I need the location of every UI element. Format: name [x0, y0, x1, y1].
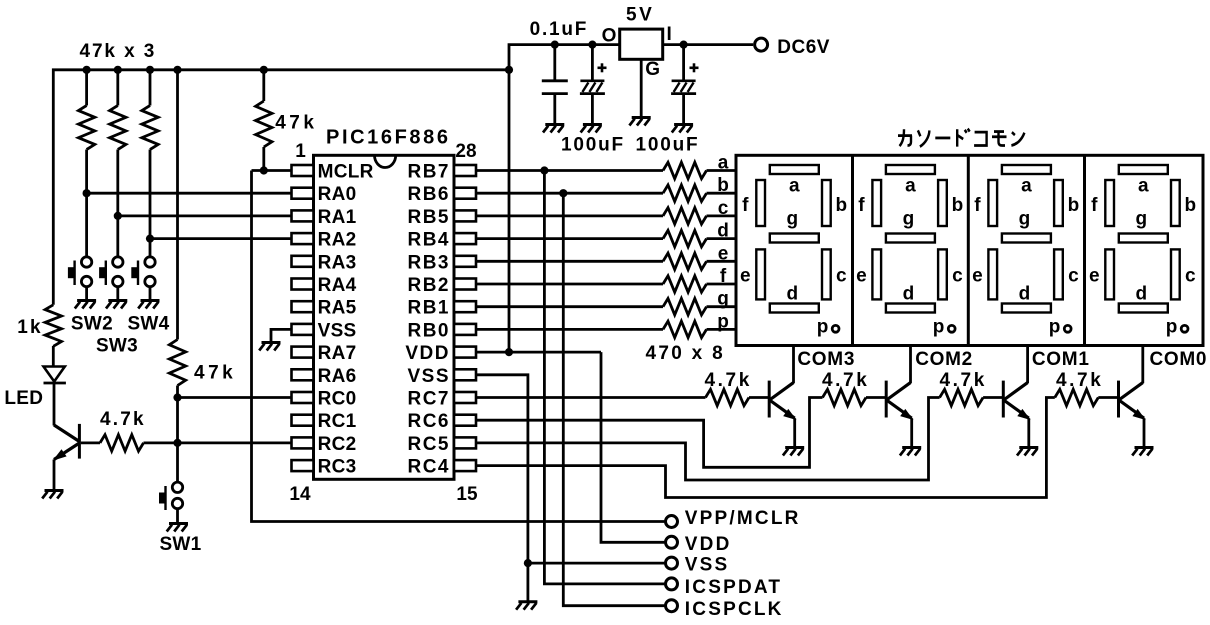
svg-text:VSS: VSS — [407, 366, 450, 387]
junction ICSPCLK RB6 — [559, 189, 567, 197]
resistor R17 4.7k base — [823, 389, 867, 405]
svg-text:4.7k: 4.7k — [705, 370, 752, 391]
wire SW3 to ground — [116, 287, 119, 300]
transistor Q2 emitter arrow — [783, 409, 796, 420]
svg-text:e: e — [972, 266, 983, 287]
display DS3 label a — [1021, 176, 1032, 197]
pin box right RC6 — [454, 415, 476, 426]
display DS2 label d — [903, 284, 915, 305]
transistor Q5 bar — [1117, 381, 1120, 418]
wire resistor to display p — [707, 328, 737, 331]
svg-text:O: O — [602, 26, 617, 47]
pin box right VSS — [454, 369, 476, 380]
label VDD — [685, 534, 732, 555]
wire RB3 to resistor — [476, 260, 663, 263]
svg-text:4.7k: 4.7k — [940, 370, 987, 391]
wire regulator output to DC6V — [663, 43, 753, 46]
wire Q5 collector diagonal — [1120, 383, 1143, 400]
display DS1 decimal point circle — [832, 325, 839, 332]
pin box left RA3 — [292, 256, 314, 267]
pin label VSS — [407, 366, 450, 387]
pin label RC2 — [318, 434, 357, 455]
display DS4 segment b bar — [1171, 180, 1180, 226]
wire R4 to MCLR — [262, 147, 265, 171]
svg-text:G: G — [645, 59, 660, 80]
wire RB1 to resistor — [476, 305, 663, 308]
wire RB2 to resistor — [476, 283, 663, 286]
wire SW1 to ground — [176, 509, 179, 523]
junction RA0 node — [83, 189, 91, 197]
display DS3 label d — [1019, 284, 1031, 305]
display DS4 label p — [1166, 317, 1178, 338]
svg-text:f: f — [1091, 195, 1098, 216]
display DS1 label p — [817, 317, 829, 338]
svg-text:RA2: RA2 — [318, 230, 357, 251]
wire RA0 to pin — [87, 192, 292, 195]
junction rail R4 — [260, 66, 268, 74]
label C2 plus — [598, 63, 607, 72]
svg-text:ICSPCLK: ICSPCLK — [685, 599, 784, 620]
pin label RC7 — [407, 389, 450, 410]
display DS2 segment c bar — [938, 249, 947, 299]
svg-text:PIC16F886: PIC16F886 — [326, 127, 451, 149]
label segment pin e — [718, 243, 729, 264]
svg-text:g: g — [1019, 209, 1031, 230]
transistor Q3 emitter arrow — [900, 409, 913, 420]
pin number 15 — [456, 484, 478, 505]
display DS4 decimal point circle — [1181, 325, 1188, 332]
wire C2 to ground — [591, 94, 594, 124]
wire resistor to display a — [707, 169, 737, 172]
wire resistor to display b — [707, 192, 737, 195]
label VSS — [685, 554, 730, 575]
junction RA2 node — [146, 235, 154, 243]
display DS3 label p — [1049, 317, 1061, 338]
svg-text:COM2: COM2 — [915, 349, 973, 370]
label LED — [4, 388, 43, 409]
svg-text:RC5: RC5 — [407, 434, 450, 455]
svg-text:SW4: SW4 — [127, 314, 169, 335]
svg-text:VPP/MCLR: VPP/MCLR — [685, 508, 801, 529]
wire resistor to display c — [707, 214, 737, 217]
wire Q1 emitter diagonal — [54, 443, 79, 460]
pin label RB2 — [407, 275, 450, 296]
pin box left RA2 — [292, 233, 314, 244]
svg-text:4.7k: 4.7k — [822, 370, 869, 391]
svg-text:p: p — [1166, 317, 1178, 338]
svg-text:RB2: RB2 — [407, 275, 450, 296]
pin label RC3 — [318, 457, 357, 478]
svg-text:VDD: VDD — [405, 343, 450, 364]
label U2 pin G — [645, 59, 660, 80]
svg-text:RB1: RB1 — [407, 298, 450, 319]
wire Q4 emitter diagonal — [1004, 401, 1029, 419]
display DS4 label b — [1184, 195, 1196, 216]
label U2 pin O — [602, 26, 617, 47]
wire resistor to display f — [707, 283, 737, 286]
wire VSS row and vertical — [476, 375, 528, 601]
transistor Q1 emitter arrow — [53, 449, 67, 461]
label 47k x 3 — [80, 41, 157, 62]
svg-text:VSS: VSS — [318, 320, 357, 341]
terminal VPP/MCLR — [666, 516, 678, 528]
wire LED to Q1 collector — [53, 384, 56, 426]
resistor R11 470 segment d — [663, 230, 707, 246]
pin box right RC4 — [454, 460, 476, 471]
wire SW4 to ground — [149, 287, 152, 300]
junction RA1 node — [114, 212, 122, 220]
ground Q1 — [42, 491, 63, 499]
wire RA2 to pin — [150, 237, 292, 240]
label C2 100uF — [561, 135, 625, 156]
junction RC0 node — [173, 393, 181, 401]
display DS2 label a — [905, 176, 916, 197]
display DS2 label f — [858, 195, 865, 216]
label segment pin b — [717, 175, 729, 196]
pin box left MCLR — [292, 165, 314, 176]
svg-text:d: d — [903, 284, 915, 305]
pin number 1 — [295, 141, 306, 162]
terminal VDD — [666, 536, 678, 548]
wire RC0 to pin — [178, 396, 292, 399]
display DS1 label f — [742, 195, 749, 216]
svg-text:f: f — [742, 195, 749, 216]
display DS4 segment g bar — [1119, 234, 1168, 243]
svg-text:p: p — [933, 317, 945, 338]
wire VDD vertical — [508, 70, 511, 352]
display DS1 label b — [835, 195, 847, 216]
wire resistor to display e — [707, 260, 737, 263]
wire left rail and top rail — [53, 70, 509, 305]
pin label RA3 — [318, 252, 357, 273]
wire RB0 to resistor — [476, 328, 663, 331]
wire R7 to RC2 pin — [144, 441, 292, 444]
wire VDD row — [476, 351, 601, 354]
resistor R1 47k — [78, 106, 94, 150]
display DS2 label p — [933, 317, 945, 338]
svg-text:28: 28 — [455, 141, 476, 162]
wire rail stub R2 — [116, 70, 119, 106]
display DS3 decimal point circle — [1064, 325, 1071, 332]
svg-text:a: a — [905, 176, 916, 197]
pin box right RC7 — [454, 392, 476, 403]
display DS4 segment c bar — [1171, 249, 1180, 299]
display DS2 segment d bar — [886, 304, 935, 313]
svg-text:a: a — [1021, 176, 1032, 197]
label R5 47k — [194, 363, 236, 384]
svg-text:RB0: RB0 — [407, 320, 450, 341]
wire C1 to ground — [553, 94, 556, 124]
pin label RA1 — [318, 207, 357, 228]
display DS1 segment b bar — [822, 180, 831, 226]
label 470 x 8 — [646, 343, 726, 364]
pin box left RA5 — [292, 301, 314, 312]
svg-text:RA1: RA1 — [318, 207, 357, 228]
label R6 1k — [17, 317, 43, 338]
wire VSS left pin — [271, 329, 292, 341]
svg-text:a: a — [1138, 176, 1149, 197]
svg-text:f: f — [858, 195, 865, 216]
wire Q2 collector diagonal — [770, 383, 793, 400]
display DS1 segment f bar — [756, 180, 765, 226]
svg-text:LED: LED — [4, 388, 43, 409]
svg-text:b: b — [1068, 195, 1080, 216]
resistor R7 4.7k — [100, 435, 144, 451]
wire COM2 collector vertical — [909, 346, 912, 384]
wire Q2 emitter diagonal — [770, 401, 795, 419]
switch SW2 contacts — [81, 257, 91, 287]
pin box right RC5 — [454, 437, 476, 448]
pin label RB0 — [407, 320, 450, 341]
wire RB7 to resistor — [476, 169, 663, 172]
pin box right RB0 — [454, 324, 476, 335]
svg-text:RA6: RA6 — [318, 366, 357, 387]
svg-text:RC6: RC6 — [407, 411, 450, 432]
resistor R12 470 segment e — [663, 253, 707, 269]
svg-text:I: I — [667, 24, 672, 45]
resistor R15 470 segment p — [663, 321, 707, 337]
pin box left RC1 — [292, 415, 314, 426]
wire R16 to base — [749, 396, 769, 399]
junction VDD pin rail — [505, 348, 513, 356]
switch SW3 contacts — [113, 257, 123, 287]
label segment pin d — [717, 221, 729, 242]
junction rail R5 — [173, 66, 181, 74]
wire R2 to SW — [116, 150, 119, 258]
display DS2 segment e bar — [872, 249, 881, 299]
svg-text:b: b — [1184, 195, 1196, 216]
label U2 5V — [626, 4, 654, 25]
ground Q5 — [1132, 448, 1153, 456]
svg-text:d: d — [1019, 284, 1031, 305]
svg-text:p: p — [717, 311, 729, 332]
wire Q4 emitter to ground — [1027, 418, 1030, 446]
junction C2 top — [588, 41, 596, 49]
display separator 1 — [851, 155, 854, 345]
ground U2 — [629, 118, 650, 126]
wire rail stub R4 — [262, 70, 265, 101]
pin label RA0 — [318, 184, 357, 205]
svg-text:p: p — [817, 317, 829, 338]
label C3 100uF — [636, 135, 700, 156]
svg-text:RA5: RA5 — [318, 298, 357, 319]
svg-text:RC7: RC7 — [407, 389, 450, 410]
svg-text:RA7: RA7 — [318, 343, 357, 364]
svg-text:MCLR: MCLR — [318, 162, 374, 183]
display DS1 segment g bar — [770, 234, 819, 243]
pin box left RA4 — [292, 279, 314, 290]
regulator U2 5V body — [620, 29, 663, 59]
svg-text:RB5: RB5 — [407, 207, 450, 228]
svg-text:RA0: RA0 — [318, 184, 357, 205]
ground C3 — [672, 125, 693, 133]
wire rail to R5 — [176, 70, 179, 340]
label COM2 — [915, 349, 973, 370]
wire Q3 emitter diagonal — [887, 401, 912, 419]
pin label VSS — [318, 320, 357, 341]
wire C3 stub — [682, 45, 685, 81]
display DS2 segment f bar — [872, 180, 881, 226]
label U2 pin I — [667, 24, 672, 45]
label SW2 — [71, 314, 113, 335]
pin label RA2 — [318, 230, 357, 251]
label DC6V — [777, 37, 830, 58]
wire rail stub R1 — [85, 70, 88, 106]
ground SW4 — [138, 301, 159, 309]
wire rail stub R3 — [149, 70, 152, 106]
pin label RB1 — [407, 298, 450, 319]
label SW1 — [159, 534, 201, 555]
display DS2 label e — [856, 266, 867, 287]
wire VSS to ICSP — [528, 562, 665, 565]
display DS3 label b — [1068, 195, 1080, 216]
resistor R5 47k SW1 pullup — [169, 340, 185, 386]
svg-text:c: c — [718, 198, 729, 219]
svg-text:1: 1 — [295, 141, 306, 162]
pin box right RB5 — [454, 210, 476, 221]
svg-text:RA4: RA4 — [318, 275, 357, 296]
label SW4 — [127, 314, 169, 335]
svg-text:ICSPDAT: ICSPDAT — [685, 577, 782, 598]
transistor Q1 bar — [78, 424, 81, 459]
pin box left RA6 — [292, 369, 314, 380]
wire C2 stub — [591, 45, 594, 81]
label R18 4.7k — [940, 370, 987, 391]
svg-text:47k: 47k — [194, 363, 236, 384]
display block outline — [736, 155, 1203, 345]
display DS2 label g — [903, 209, 915, 230]
svg-text:47k: 47k — [275, 113, 317, 134]
ground Q3 — [900, 448, 921, 456]
pin label RC0 — [318, 389, 357, 410]
wire RB4 to resistor — [476, 237, 663, 240]
label segment pin g — [717, 289, 729, 310]
resistor R6 1k — [45, 305, 61, 347]
svg-text:VSS: VSS — [685, 554, 730, 575]
display DS3 label f — [974, 195, 981, 216]
pin box left RC3 — [292, 460, 314, 471]
display DS1 label e — [740, 266, 751, 287]
junction rail R3 — [146, 66, 154, 74]
svg-text:g: g — [903, 209, 915, 230]
pin label RB4 — [407, 230, 450, 251]
display DS2 segment a bar — [886, 165, 935, 174]
pin box right RB4 — [454, 233, 476, 244]
wire R5 to SW1 — [176, 386, 179, 483]
svg-text:e: e — [740, 266, 751, 287]
wire RC6 route — [476, 398, 823, 468]
svg-text:a: a — [789, 176, 800, 197]
wire RC5 route — [476, 398, 940, 481]
switch SW3 actuator — [100, 261, 106, 286]
label R19 4.7k — [1056, 370, 1103, 391]
wire R19 to base — [1098, 396, 1118, 399]
display DS1 segment e bar — [756, 249, 765, 299]
svg-text:COM1: COM1 — [1032, 349, 1090, 370]
svg-text:14: 14 — [289, 484, 311, 505]
svg-text:c: c — [836, 266, 847, 287]
pin label MCLR — [318, 162, 374, 183]
svg-text:4.7k: 4.7k — [1056, 370, 1103, 391]
svg-text:b: b — [952, 195, 964, 216]
transistor Q4 bar — [1002, 381, 1005, 418]
svg-text:100uF: 100uF — [636, 135, 700, 156]
wire RA1 to pin — [118, 214, 292, 217]
ground C2 — [581, 125, 602, 133]
IC U1 title label PIC16F886 — [326, 127, 451, 149]
svg-text:RB7: RB7 — [407, 162, 450, 183]
wire R17 to base — [866, 396, 886, 399]
svg-text:RA3: RA3 — [318, 252, 357, 273]
resistor R13 470 segment f — [663, 276, 707, 292]
label C1 0.1uF — [530, 19, 589, 40]
junction rail R1 — [83, 66, 91, 74]
pin label RB3 — [407, 252, 450, 273]
transistor Q3 bar — [885, 381, 888, 418]
pin box left RA1 — [292, 210, 314, 221]
ground C1 — [543, 125, 564, 133]
display DS1 segment a bar — [770, 165, 819, 174]
label C3 plus — [690, 63, 699, 72]
svg-text:d: d — [1135, 284, 1147, 305]
switch SW4 actuator — [132, 261, 138, 286]
svg-text:0.1uF: 0.1uF — [530, 19, 589, 40]
svg-text:RC0: RC0 — [318, 389, 357, 410]
display DS3 segment e bar — [988, 249, 997, 299]
pin box right RB7 — [454, 165, 476, 176]
pin box right RB2 — [454, 279, 476, 290]
display DS4 label a — [1138, 176, 1149, 197]
junction C1 top — [551, 41, 559, 49]
svg-text:p: p — [1049, 317, 1061, 338]
wire Q1 base to R7 — [81, 441, 100, 444]
pin label RB6 — [407, 184, 450, 205]
wire Q1 collector diagonal — [54, 425, 79, 442]
display DS2 segment b bar — [938, 180, 947, 226]
wire RB5 to resistor — [476, 214, 663, 217]
svg-text:RC1: RC1 — [318, 411, 357, 432]
display DS1 label g — [786, 209, 798, 230]
svg-text:RC2: RC2 — [318, 434, 357, 455]
display DS2 label c — [952, 266, 963, 287]
label ICSPCLK — [685, 599, 784, 620]
wire C3 to ground — [682, 94, 685, 124]
switch SW1 actuator — [160, 486, 166, 510]
terminal VSS — [666, 557, 678, 569]
label R16 4.7k — [705, 370, 752, 391]
wire RB6 to resistor — [476, 192, 663, 195]
wire R18 to base — [983, 396, 1003, 399]
pin box left RA0 — [292, 188, 314, 199]
wire Q1 emitter to ground — [53, 460, 56, 490]
display DS3 segment f bar — [988, 180, 997, 226]
pin label RA4 — [318, 275, 357, 296]
svg-text:1k: 1k — [17, 317, 43, 338]
svg-text:COM3: COM3 — [797, 349, 855, 370]
label SW3 — [96, 336, 138, 357]
pin label RC1 — [318, 411, 357, 432]
svg-text:RC3: RC3 — [318, 457, 357, 478]
svg-text:b: b — [717, 175, 729, 196]
resistor R4 47k MCLR pullup — [256, 101, 272, 147]
terminal ICSPCLK — [666, 600, 678, 612]
label segment pin c — [718, 198, 729, 219]
label ICSPDAT — [685, 577, 782, 598]
junction VSS ICSP — [524, 559, 532, 567]
display DS2 segment g bar — [886, 234, 935, 243]
wire R3 to SW — [149, 150, 152, 258]
display DS3 segment g bar — [1002, 234, 1051, 243]
